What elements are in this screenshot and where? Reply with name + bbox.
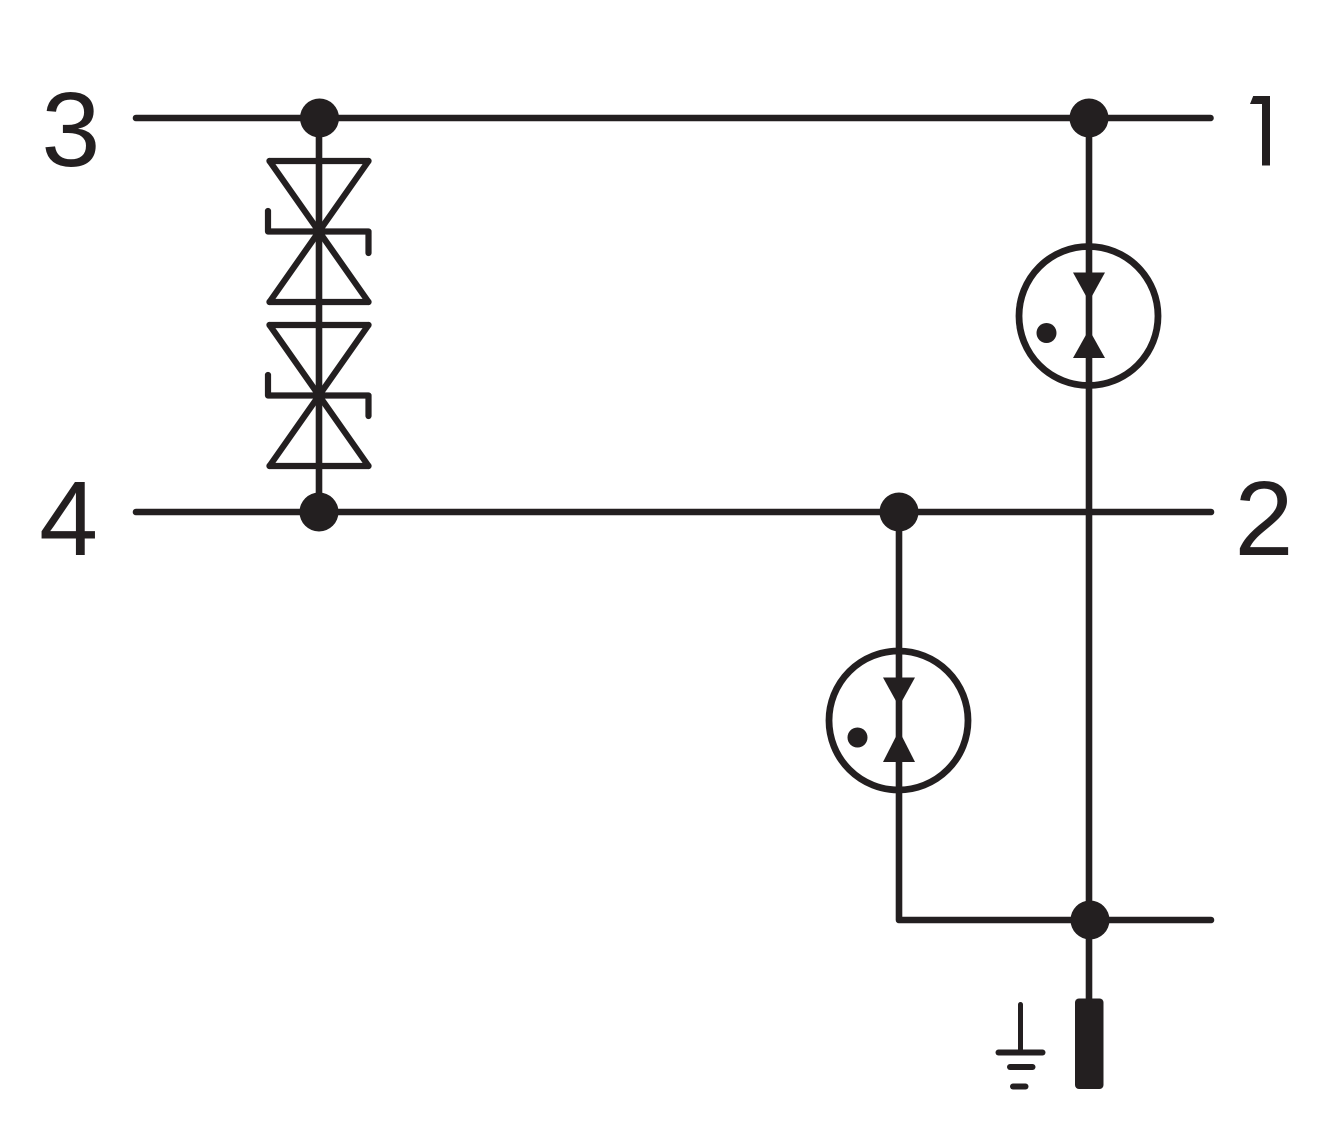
TVS diode V1 top edge <box>270 158 369 164</box>
U1 electrode triangle (upper, pointing down) <box>1073 273 1105 302</box>
TVS diode V2 bottom edge <box>270 463 369 469</box>
junction node on line 1 above U1 <box>1070 99 1109 138</box>
U2 electrode triangle (lower, pointing up) <box>883 731 915 763</box>
wire: from node on line 2 through U2 down then right to PE bus end <box>899 512 1211 920</box>
ground symbol long bar <box>999 1050 1043 1056</box>
TVS diode V2 diagonal TL-BR <box>270 325 369 466</box>
terminal label 1 <box>1250 96 1270 166</box>
svg-text:4: 4 <box>39 460 98 578</box>
junction node PE (bottom) <box>1071 901 1110 940</box>
ground symbol middle bar <box>1010 1064 1033 1070</box>
ground symbol short bar <box>1013 1084 1026 1090</box>
junction node on line 2 above U2 <box>880 493 919 532</box>
surge arrester U1 circle (top right gas discharge tube) <box>1019 247 1158 386</box>
TVS diode V1 bidirectional bar <box>268 211 369 253</box>
U2 electrode triangle (upper, pointing down) <box>883 678 915 707</box>
junction node on line 3-1 above TVS stack <box>300 99 339 138</box>
TVS diode V2 top edge <box>270 322 369 328</box>
earth electrode bar (filled rectangle) <box>1075 999 1104 1090</box>
svg-text:2: 2 <box>1235 460 1294 578</box>
wire: right vertical from node on line 1 through U1 down to PE node <box>1086 118 1093 920</box>
ground symbol stem <box>1018 1005 1023 1053</box>
wire: stub from PE node down to earth electrode bar <box>1086 920 1093 1000</box>
U2 gas indicator dot <box>848 728 868 748</box>
wire: vertical through TVS stack <box>316 118 323 512</box>
U1 gas indicator dot <box>1037 323 1057 343</box>
wire: terminal 4 to terminal 2 (middle horizontal) <box>136 509 1211 516</box>
TVS diode V1 bottom edge <box>270 299 369 305</box>
TVS diode V1 diagonal TR-BL <box>270 161 369 302</box>
svg-text:3: 3 <box>41 71 100 189</box>
U1 electrode triangle (lower, pointing up) <box>1073 330 1105 359</box>
TVS diode V2 diagonal TR-BL <box>270 325 369 466</box>
junction node on line 4 below TVS stack <box>300 493 339 532</box>
TVS diode V2 bidirectional bar <box>268 375 369 416</box>
surge arrester U2 circle (lower middle gas discharge tube) <box>829 651 968 790</box>
wire: terminal 3 to terminal 1 (top horizontal) <box>136 115 1211 122</box>
TVS diode V1 diagonal TL-BR <box>270 161 369 302</box>
